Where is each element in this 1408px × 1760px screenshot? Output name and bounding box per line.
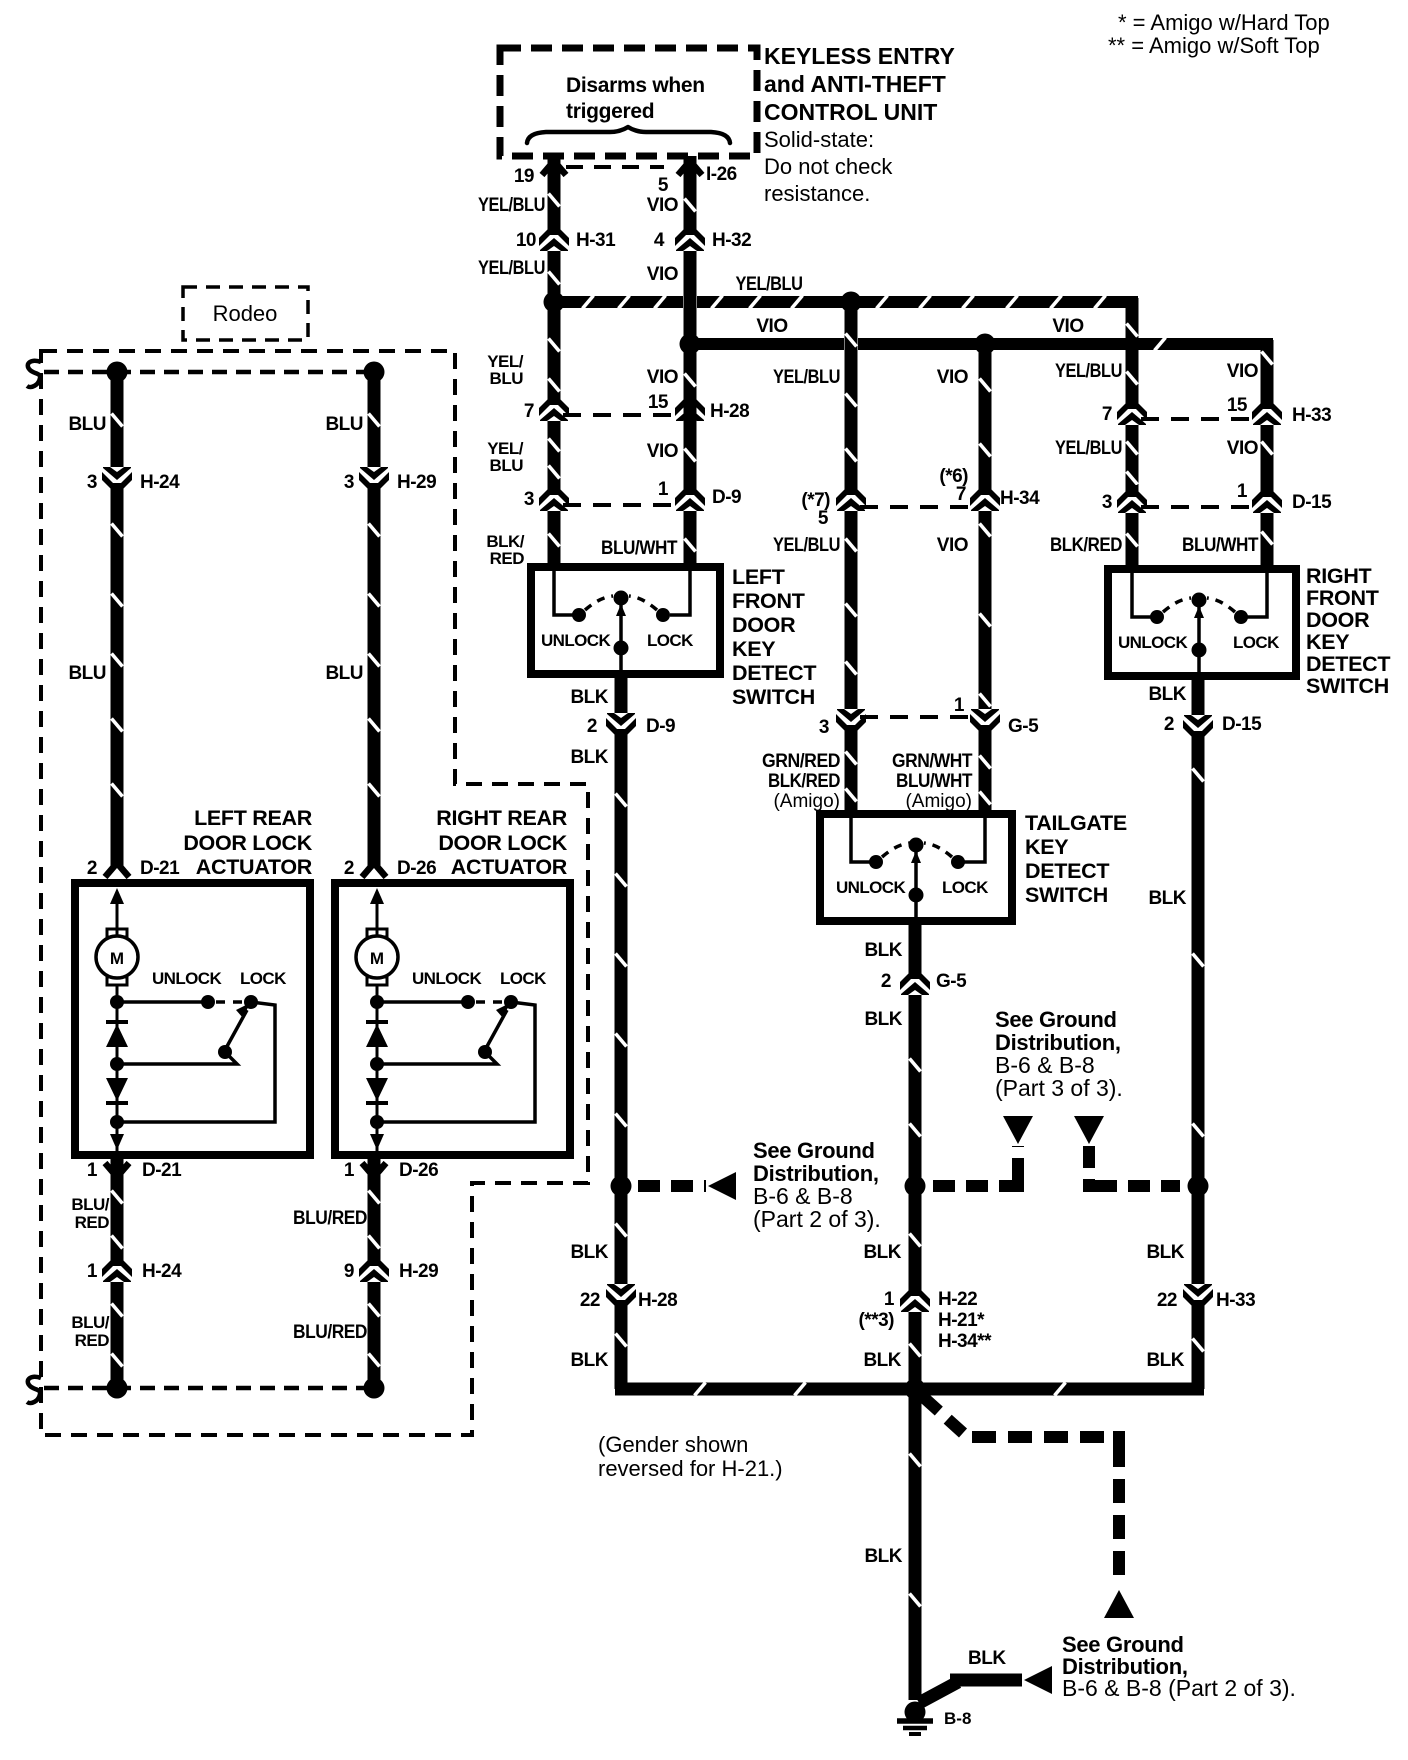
middle junction dot [110, 1057, 124, 1071]
bus tick marks [695, 1383, 706, 1396]
svg-text:BLK: BLK [1148, 684, 1186, 705]
connector H-24 pin 1 [99, 1254, 135, 1282]
svg-text:3: 3 [524, 489, 534, 510]
svg-text:CONTROL UNIT: CONTROL UNIT [764, 99, 937, 125]
svg-text:H-29: H-29 [397, 472, 436, 493]
bus B1 corner down to W5 [1126, 298, 1139, 571]
svg-text:BLU: BLU [68, 414, 106, 435]
dashed to lock contact [216, 1000, 244, 1004]
Rodeo label dashed box [183, 287, 308, 340]
node dot L2 top [364, 362, 385, 383]
svg-text:TAILGATE: TAILGATE [1025, 811, 1127, 835]
pole stem [914, 851, 918, 921]
contact dot lock [1234, 610, 1248, 624]
svg-text:and ANTI-THEFT: and ANTI-THEFT [764, 71, 946, 97]
middle junction dot [370, 1057, 384, 1071]
svg-text:7: 7 [956, 484, 966, 505]
svg-text:1: 1 [87, 1261, 98, 1282]
svg-text:BLK: BLK [570, 1242, 608, 1263]
svg-text:VIO: VIO [756, 316, 787, 337]
connector D-15 on W5 [1114, 485, 1150, 513]
connector D-9 pin 2 [603, 713, 639, 741]
node dot B2/W2 [680, 334, 701, 355]
svg-text:D-21: D-21 [142, 1160, 182, 1181]
switch box U3 [1108, 569, 1296, 676]
keyless entry control unit dashed box [500, 48, 757, 156]
svg-text:** = Amigo w/Soft Top: ** = Amigo w/Soft Top [1108, 33, 1320, 58]
connector H-31 [536, 223, 572, 251]
ground spur wire [919, 1680, 1022, 1703]
unlock contact dot [201, 995, 215, 1009]
off-page arrow left [708, 1172, 736, 1200]
svg-text:VIO: VIO [1052, 316, 1083, 337]
wiper dashed left [585, 596, 613, 610]
pole arrow up [911, 851, 921, 863]
svg-text:D-9: D-9 [646, 716, 675, 737]
connector H-29 pin 9 [356, 1254, 392, 1282]
contact dot unlock [869, 855, 883, 869]
svg-text:1: 1 [87, 1160, 98, 1181]
svg-text:D-15: D-15 [1222, 714, 1262, 735]
svg-text:1: 1 [884, 1289, 895, 1310]
contact dot lock [951, 855, 965, 869]
svg-text:5: 5 [818, 508, 829, 529]
pole stem [1197, 606, 1201, 676]
line to unlock contact [117, 1000, 208, 1004]
exit arrow down [370, 1134, 384, 1150]
svg-text:VIO: VIO [937, 535, 968, 556]
svg-text:H-34**: H-34** [938, 1331, 992, 1352]
motor M2 brushes [367, 929, 387, 937]
svg-text:YEL/BLU: YEL/BLU [1055, 438, 1122, 459]
svg-text:(Part 2 of 3).: (Part 2 of 3). [753, 1206, 881, 1232]
svg-text:DOOR: DOOR [732, 613, 796, 637]
svg-text:3: 3 [87, 472, 97, 493]
svg-text:(Amigo): (Amigo) [773, 791, 840, 812]
wire S1 output of left switch [615, 674, 628, 1389]
switch pole top dot [909, 838, 924, 853]
svg-text:UNLOCK: UNLOCK [1118, 633, 1188, 652]
inner rail right [1247, 573, 1267, 617]
unlock contact dot [461, 995, 475, 1009]
svg-text:VIO: VIO [937, 367, 968, 388]
inner rail left [554, 571, 574, 615]
svg-text:DOOR LOCK: DOOR LOCK [438, 831, 567, 855]
node dot L1 bottom [107, 1378, 128, 1399]
svg-text:H-33: H-33 [1216, 1290, 1255, 1311]
connector H-28 on W1 [536, 393, 572, 421]
link to right rail [117, 1002, 275, 1122]
svg-text:BLU: BLU [325, 414, 363, 435]
svg-text:H-34: H-34 [1000, 488, 1040, 509]
svg-text:BLU: BLU [68, 663, 106, 684]
pole arrow up [1194, 606, 1204, 618]
connector H-24 [99, 467, 135, 495]
middle line [377, 1052, 497, 1064]
svg-text:YEL/BLU: YEL/BLU [736, 274, 803, 295]
svg-text:BLK: BLK [1146, 1242, 1184, 1263]
tick marks L1 [112, 414, 123, 427]
svg-text:SWITCH: SWITCH [1025, 883, 1108, 907]
dashed jumper H-28 row [563, 413, 681, 417]
svg-text:Solid-state:: Solid-state: [764, 127, 874, 152]
svg-text:G-5: G-5 [1008, 716, 1039, 737]
svg-text:LOCK: LOCK [647, 631, 694, 650]
motor M1 brushes [107, 929, 127, 937]
diode D2 down [106, 1078, 128, 1101]
connector H-33 on W5 [1114, 397, 1150, 425]
svg-text:BLK: BLK [864, 940, 902, 961]
tick marks S1 [616, 794, 627, 807]
svg-text:RED: RED [75, 1331, 110, 1350]
inner rail right [963, 818, 985, 862]
svg-text:BLU/WHT: BLU/WHT [601, 538, 678, 559]
svg-text:triggered: triggered [566, 100, 654, 123]
svg-text:LEFT REAR: LEFT REAR [194, 806, 313, 830]
svg-text:VIO: VIO [1227, 361, 1258, 382]
svg-text:BLK/RED: BLK/RED [1050, 535, 1122, 556]
wire W1 from control unit pin 19 down [548, 156, 561, 571]
connector G-5 pair on W4 [967, 709, 1003, 737]
svg-text:BLK: BLK [1148, 888, 1186, 909]
svg-text:19: 19 [514, 166, 534, 187]
node dot on S3 [1188, 1176, 1209, 1197]
diode D3 up [366, 1020, 388, 1024]
svg-text:BLK: BLK [863, 1242, 901, 1263]
tick marks W6 [1262, 352, 1273, 365]
off-page arrow ground spur [1024, 1666, 1052, 1694]
svg-text:Do not check: Do not check [764, 154, 893, 179]
dashed jumper D-15 row [1141, 505, 1258, 509]
svg-text:7: 7 [1102, 404, 1112, 425]
svg-text:KEY: KEY [1306, 630, 1349, 654]
svg-text:See Ground: See Ground [753, 1138, 875, 1163]
svg-text:YEL/BLU: YEL/BLU [773, 367, 840, 388]
wiper dashed right [629, 596, 657, 610]
svg-text:3: 3 [344, 472, 354, 493]
svg-text:BLK/RED: BLK/RED [768, 771, 840, 792]
ground G1 [905, 1702, 926, 1723]
connector I-26 splay pin 5 [678, 161, 702, 175]
dashed jumper D-9 row [563, 503, 681, 507]
svg-text:(Gender shown: (Gender shown [598, 1432, 748, 1457]
wire W2 between buses [684, 344, 697, 571]
svg-text:KEY: KEY [732, 637, 775, 661]
contact dot unlock [1150, 610, 1164, 624]
dashed branch diagonal to riser [921, 1395, 1119, 1586]
diode D4 down [366, 1078, 388, 1101]
svg-text:YEL/BLU: YEL/BLU [478, 195, 545, 216]
svg-text:H-32: H-32 [712, 230, 751, 251]
svg-text:VIO: VIO [647, 441, 678, 462]
junction dot [905, 1379, 926, 1400]
connector I-26 splay pin 19 [542, 161, 566, 175]
svg-text:BLK: BLK [864, 1009, 902, 1030]
svg-text:H-28: H-28 [638, 1290, 677, 1311]
motor M2 [356, 936, 398, 978]
bus B2 corner down to W6 [1261, 340, 1274, 573]
wire W4 from B2 down to tailgate [979, 344, 992, 818]
ground riser arrow 2 [1074, 1116, 1104, 1144]
motor M1 [96, 936, 138, 978]
svg-text:1: 1 [954, 695, 965, 716]
switch pole top dot [1192, 593, 1207, 608]
svg-text:YEL/BLU: YEL/BLU [1055, 361, 1122, 382]
connector H-22 pin 1 [897, 1284, 933, 1312]
node dot B1/W3 [841, 292, 862, 313]
svg-text:M: M [110, 949, 124, 968]
svg-text:* = Amigo w/Hard Top: * = Amigo w/Hard Top [1118, 10, 1330, 35]
svg-text:H-22: H-22 [938, 1289, 977, 1310]
ground riser arrow 1 [1003, 1116, 1033, 1144]
tick marks W1 [549, 339, 560, 352]
entry arrow up [370, 888, 384, 904]
tick marks L2 lower [369, 1191, 380, 1204]
svg-text:LOCK: LOCK [240, 969, 287, 988]
node dot on S2 [905, 1176, 926, 1197]
svg-text:D-9: D-9 [712, 487, 741, 508]
connector H-33 on W6 [1249, 397, 1285, 425]
svg-text:BLK: BLK [864, 1546, 902, 1567]
svg-text:BLU/: BLU/ [71, 1195, 109, 1214]
node dot B1/W1 [544, 292, 565, 313]
connector D-15 pin 2 [1180, 715, 1216, 743]
svg-text:DETECT: DETECT [1306, 652, 1390, 676]
connector H-32 [672, 223, 708, 251]
bottom node dot [110, 1115, 124, 1129]
svg-text:(Part 3 of 3).: (Part 3 of 3). [995, 1075, 1123, 1101]
svg-text:H-33: H-33 [1292, 405, 1331, 426]
svg-text:10: 10 [516, 230, 536, 251]
svg-text:VIO: VIO [647, 367, 678, 388]
connector D-26 splay pin 1 (bottom) [362, 1163, 386, 1177]
S squiggle top [27, 361, 41, 387]
svg-text:H-21*: H-21* [938, 1310, 985, 1331]
switch box U1 [531, 567, 720, 674]
dashed jumper G-5 row [860, 715, 976, 719]
contact dot unlock [572, 608, 586, 622]
entry arrow up [110, 888, 124, 904]
svg-text:VIO: VIO [647, 195, 678, 216]
svg-text:UNLOCK: UNLOCK [412, 969, 482, 988]
svg-text:VIO: VIO [1227, 438, 1258, 459]
node dot [110, 995, 124, 1009]
svg-text:BLU/WHT: BLU/WHT [896, 771, 973, 792]
svg-text:3: 3 [819, 717, 829, 738]
svg-text:H-31: H-31 [576, 230, 616, 251]
dashed stub from second ground riser [1089, 1146, 1180, 1186]
svg-text:BLK: BLK [570, 687, 608, 708]
svg-text:DOOR: DOOR [1306, 608, 1370, 632]
svg-text:BLU/RED: BLU/RED [293, 1208, 367, 1229]
svg-text:2: 2 [87, 858, 97, 879]
node dot on S1 [611, 1176, 632, 1197]
connector H-34 pair on W4 [967, 483, 1003, 511]
switch box U2 [820, 814, 1012, 921]
svg-text:4: 4 [654, 230, 665, 251]
dashed stub left with arrow [638, 1180, 706, 1192]
middle line [117, 1052, 237, 1064]
wire L1 [111, 372, 124, 866]
svg-text:22: 22 [580, 1290, 600, 1311]
tick marks S3 [1193, 769, 1204, 782]
svg-text:RIGHT REAR: RIGHT REAR [436, 806, 568, 830]
svg-text:YEL/BLU: YEL/BLU [773, 535, 840, 556]
svg-text:1: 1 [1237, 481, 1248, 502]
tick marks W2 [685, 374, 696, 387]
wire W3 from B1 down to tailgate [845, 302, 858, 818]
svg-text:5: 5 [658, 175, 669, 196]
tick marks W3 [846, 334, 857, 347]
connector G-5 pin 2 [897, 967, 933, 995]
dashed stub to first ground riser [933, 1146, 1018, 1186]
connector H-33 pin 22 [1180, 1284, 1216, 1312]
wire L2 [368, 372, 381, 866]
svg-text:BLU/RED: BLU/RED [293, 1322, 367, 1343]
actuator box A2 [335, 883, 570, 1155]
bus B2 VIO horizontal, gap at W3 crossing [690, 338, 844, 350]
svg-text:resistance.: resistance. [764, 181, 870, 206]
svg-text:2: 2 [1164, 714, 1174, 735]
svg-text:1: 1 [344, 1160, 355, 1181]
diode D1 up [106, 1020, 128, 1024]
svg-text:D-26: D-26 [397, 858, 436, 879]
svg-text:BLK: BLK [570, 1350, 608, 1371]
link to right rail [377, 1002, 535, 1122]
pole bottom dot [909, 888, 924, 903]
svg-text:GRN/WHT: GRN/WHT [892, 751, 973, 772]
contact dot lock [656, 608, 670, 622]
node dot L1 top [107, 362, 128, 383]
svg-text:Rodeo: Rodeo [213, 301, 278, 326]
connector D-9 on W2 [672, 483, 708, 511]
svg-text:reversed for H-21.): reversed for H-21.) [598, 1456, 783, 1481]
connector H-34 pair on W3 [833, 483, 869, 511]
bottom bus wire [615, 1383, 1204, 1396]
svg-text:H-24: H-24 [140, 472, 180, 493]
dashed jumper H-33 row [1141, 417, 1258, 421]
lock contact dot [504, 995, 518, 1009]
svg-text:3: 3 [1102, 492, 1112, 513]
tick marks L2 [369, 414, 380, 427]
svg-text:RED: RED [75, 1213, 110, 1232]
pole arrow up [616, 604, 626, 616]
center stem [376, 985, 379, 1151]
svg-text:7: 7 [524, 401, 534, 422]
lever with arrowhead [225, 1010, 247, 1050]
pole bottom dot [614, 641, 629, 656]
dashed jumper H-34 row [860, 505, 976, 509]
svg-text:DOOR LOCK: DOOR LOCK [183, 831, 312, 855]
connector H-28 on W2 [672, 393, 708, 421]
svg-text:ACTUATOR: ACTUATOR [196, 855, 313, 879]
tick marks S2 [910, 1059, 921, 1072]
node dot B2/W4 [975, 334, 996, 355]
connector H-28 pin 22 [603, 1284, 639, 1312]
tick marks wire W1 [549, 194, 560, 207]
wiper dashed right [924, 843, 952, 857]
svg-text:BLU/: BLU/ [71, 1313, 109, 1332]
exit arrow down [110, 1134, 124, 1150]
svg-text:BLU/WHT: BLU/WHT [1182, 535, 1259, 556]
S squiggle bottom [27, 1377, 41, 1403]
svg-text:BLK: BLK [1146, 1350, 1184, 1371]
svg-text:H-28: H-28 [710, 401, 749, 422]
svg-text:YEL/BLU: YEL/BLU [478, 258, 545, 279]
wiper dashed right [1207, 598, 1235, 612]
connector G-5 pair on W3 [833, 709, 869, 737]
connector D-15 on W6 [1249, 485, 1285, 513]
actuator box A1 [75, 883, 310, 1155]
inner rail left [1132, 573, 1152, 617]
pole stem [619, 604, 623, 674]
wire S3 output of right switch [1192, 676, 1205, 1389]
svg-text:15: 15 [648, 392, 669, 413]
tick marks W5 [1127, 324, 1138, 337]
svg-text:22: 22 [1157, 1290, 1177, 1311]
inner rail left [851, 818, 871, 862]
svg-text:RIGHT: RIGHT [1306, 564, 1372, 588]
svg-text:1: 1 [658, 479, 669, 500]
svg-text:RED: RED [490, 549, 525, 568]
svg-text:VIO: VIO [647, 264, 678, 285]
svg-text:DETECT: DETECT [1025, 859, 1109, 883]
switch pole top dot [614, 591, 629, 606]
svg-text:B-8: B-8 [944, 1709, 971, 1728]
bottom node dot [370, 1115, 384, 1129]
dashed connector row line I-26 [566, 165, 664, 169]
svg-text:GRN/RED: GRN/RED [762, 751, 840, 772]
connector D-9 on W1 [536, 483, 572, 511]
tick marks L1 lower [112, 1191, 123, 1204]
svg-text:Disarms when: Disarms when [566, 74, 705, 97]
svg-text:H-24: H-24 [142, 1261, 182, 1282]
svg-text:2: 2 [344, 858, 354, 879]
svg-text:2: 2 [587, 716, 597, 737]
lever dot [218, 1045, 232, 1059]
lock contact dot [244, 995, 258, 1009]
svg-text:BLK: BLK [570, 747, 608, 768]
wiper dashed left [1163, 598, 1191, 612]
wiper dashed left [882, 843, 910, 857]
svg-text:I-26: I-26 [706, 164, 737, 185]
bottom dashed wire with S squiggle [44, 1386, 374, 1391]
svg-text:BLK: BLK [968, 1648, 1006, 1669]
svg-text:UNLOCK: UNLOCK [836, 878, 906, 897]
node dot [370, 995, 384, 1009]
bus B2 tick mark [1155, 338, 1166, 351]
bus B1 tick marks [583, 296, 594, 309]
svg-text:B-6 & B-8 (Part 2 of 3).: B-6 & B-8 (Part 2 of 3). [1062, 1675, 1296, 1701]
connector D-21 splay pin 1 (bottom) [105, 1163, 129, 1177]
svg-text:SWITCH: SWITCH [732, 685, 815, 709]
svg-text:H-29: H-29 [399, 1261, 438, 1282]
wire W2 from control unit pin 5 down [684, 156, 697, 344]
pole bottom dot [1192, 643, 1207, 658]
svg-text:ACTUATOR: ACTUATOR [451, 855, 568, 879]
svg-text:BLK: BLK [863, 1350, 901, 1371]
inner rail right [670, 571, 690, 615]
ground riser arrow 3 [1104, 1590, 1134, 1618]
svg-text:DETECT: DETECT [732, 661, 816, 685]
node dot L2 bottom [364, 1378, 385, 1399]
lever with arrowhead [485, 1010, 507, 1050]
svg-text:9: 9 [344, 1261, 354, 1282]
svg-text:KEYLESS ENTRY: KEYLESS ENTRY [764, 43, 955, 69]
svg-text:15: 15 [1227, 395, 1248, 416]
svg-text:FRONT: FRONT [1306, 586, 1379, 610]
brace under triggered [527, 127, 730, 143]
